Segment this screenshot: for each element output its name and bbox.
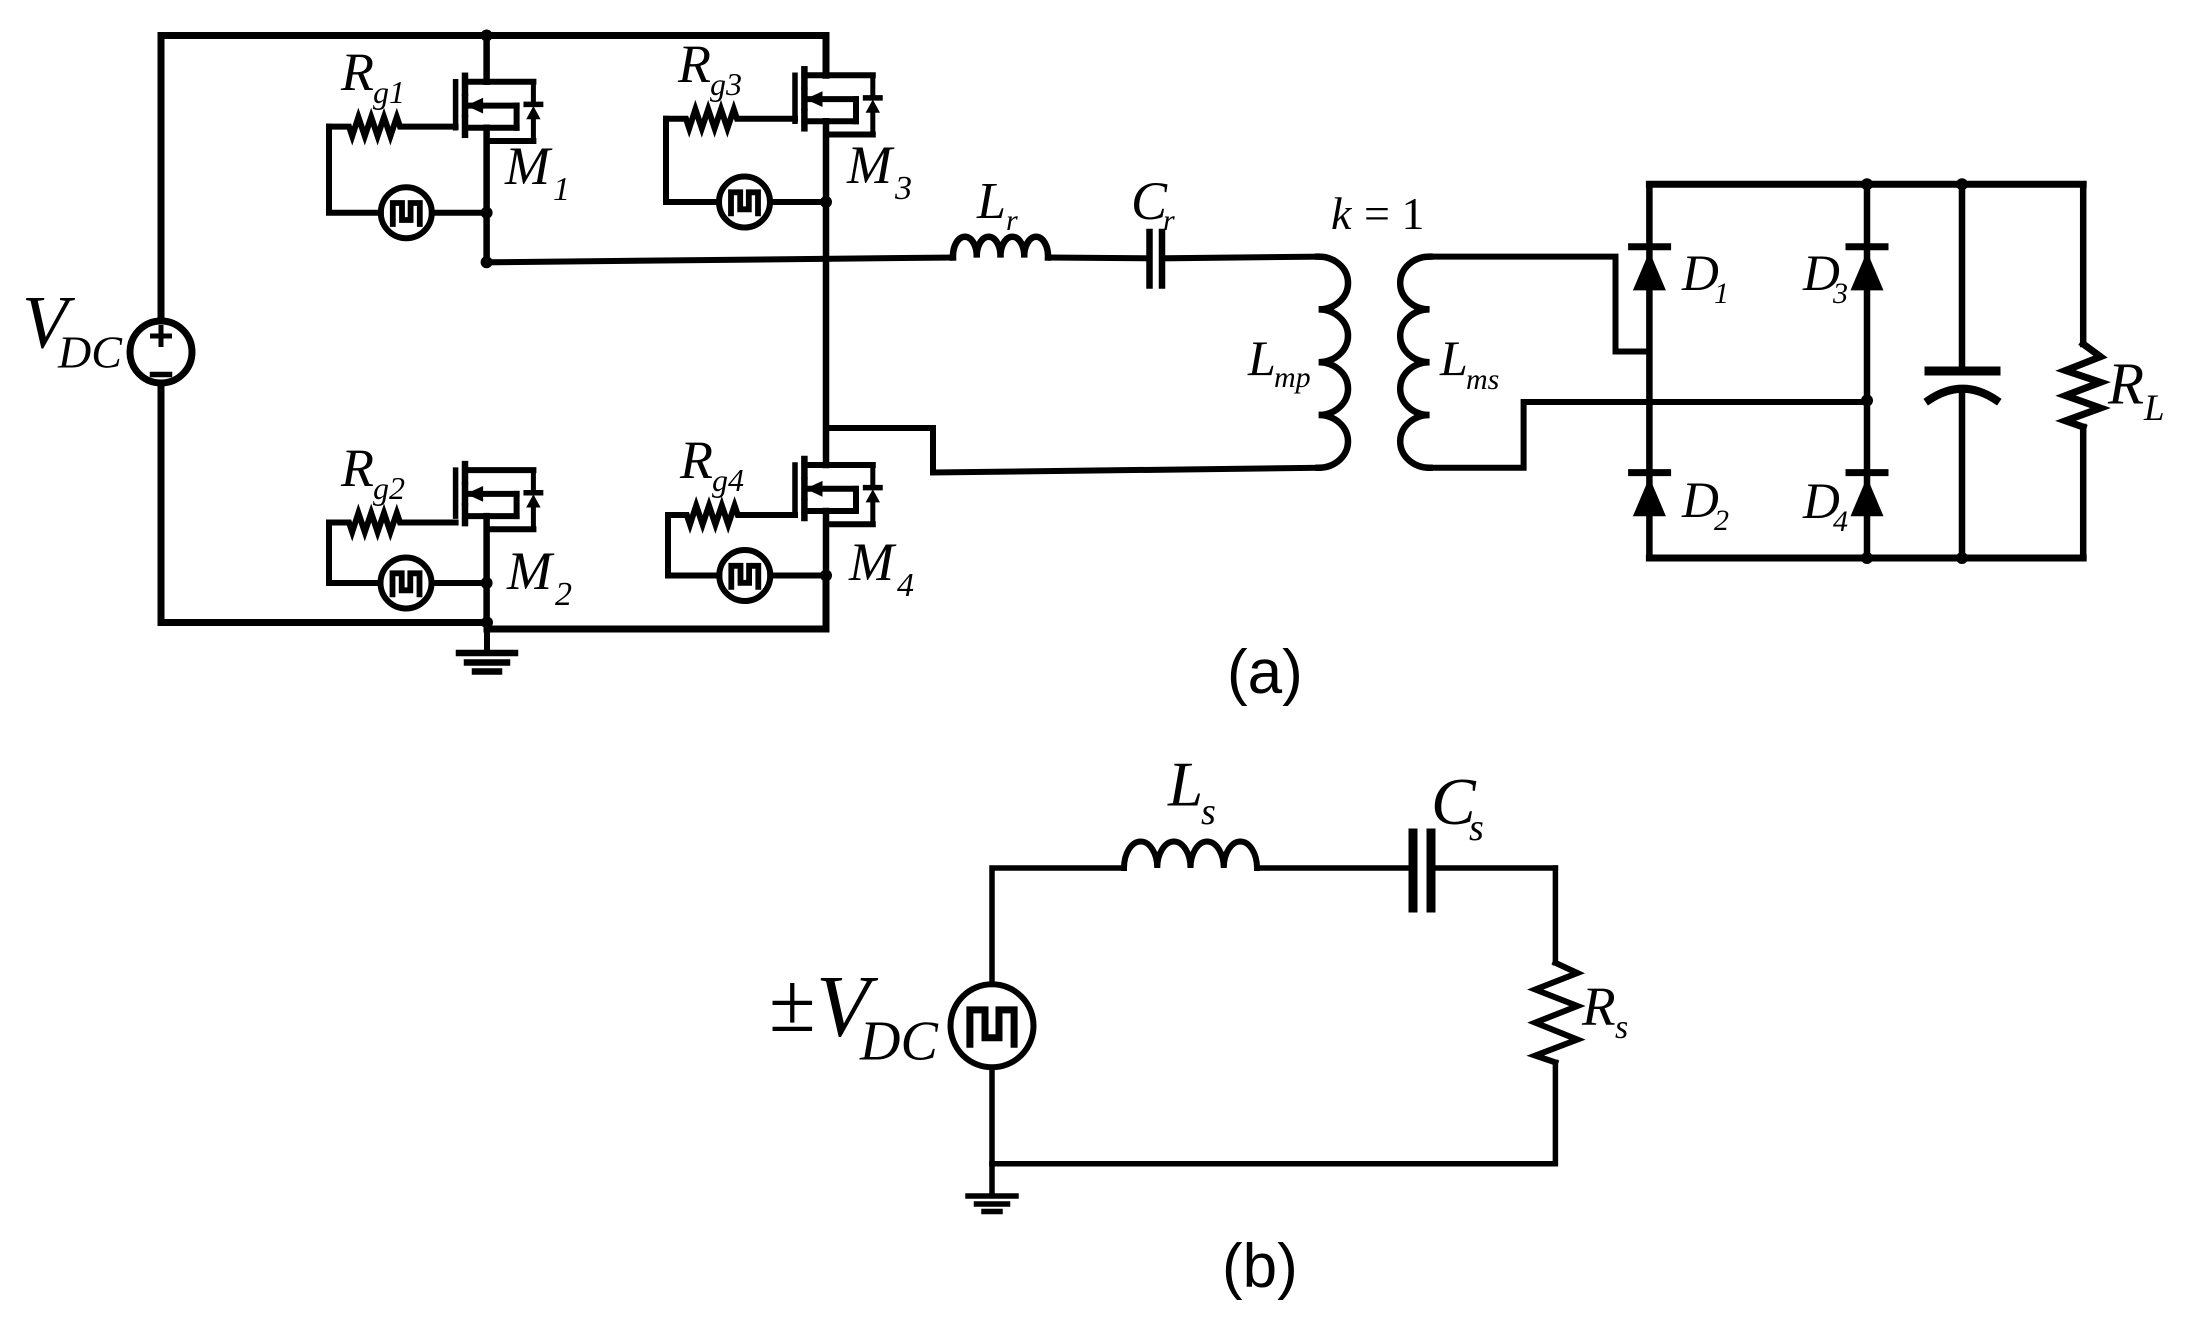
wire: bridge bottom rail	[1649, 555, 2083, 562]
wire: pulse to M2 source node	[432, 580, 487, 586]
wire: bridge top rail	[1649, 181, 2083, 188]
wire: Cr to Lmp	[1165, 257, 1319, 259]
inductor Ls	[1124, 841, 1257, 868]
svg-text:s: s	[1615, 1009, 1628, 1046]
svg-text:2: 2	[1714, 504, 1729, 537]
node bridge mid right leg	[1861, 395, 1873, 407]
transistor M2	[456, 464, 541, 529]
wire: Cs to right rail	[1434, 865, 1555, 871]
node bridge bottom rail cap	[1956, 552, 1968, 564]
wire: Rg2 loop left leg	[329, 523, 381, 584]
wire: bridge left leg	[1646, 184, 1653, 558]
svg-text:R: R	[1581, 976, 1616, 1037]
svg-text:R: R	[677, 34, 711, 94]
wire: Lmp bottom back to right-leg mid node	[826, 428, 1319, 473]
wire: bottom rail	[161, 576, 826, 630]
resistor Rs	[1535, 963, 1577, 1063]
wire: Lr to Cr	[1048, 255, 1146, 262]
svg-text:L: L	[1439, 330, 1468, 386]
svg-text:3: 3	[1832, 277, 1848, 310]
wire: pulse to M1 source node	[432, 210, 487, 216]
ground (b)	[968, 1164, 1016, 1212]
diode D3	[1849, 247, 1885, 291]
diode D2	[1632, 473, 1668, 517]
wire: left rail below VDC down to bottom rail	[158, 383, 165, 623]
wire: pulse to M3 source node	[770, 199, 826, 205]
wire: M1 drain from top rail	[483, 36, 490, 82]
svg-text:R: R	[340, 438, 374, 498]
capacitor Cr	[1150, 232, 1163, 286]
node top rail / M1 drain	[481, 30, 493, 42]
wire: Rg4 loop left leg	[668, 515, 719, 576]
wire: mid node to Lr	[487, 258, 953, 263]
svg-text:L: L	[1247, 330, 1276, 386]
svg-text:s: s	[1201, 791, 1216, 833]
wire: (b) top left rail	[992, 868, 1124, 984]
node bridge mid left leg	[481, 256, 493, 268]
svg-text:3: 3	[894, 170, 912, 207]
svg-text:= 1: = 1	[1364, 188, 1424, 239]
svg-text:DC: DC	[859, 1011, 938, 1073]
svg-text:M: M	[506, 541, 555, 601]
wire: Rg3 loop left leg	[666, 119, 719, 202]
wire: (b) below source to bottom rail	[989, 1067, 995, 1163]
svg-text:R: R	[679, 430, 713, 490]
resistor RL	[2066, 184, 2101, 558]
pulse source VG3	[719, 177, 770, 228]
Vdc source VDC	[130, 321, 192, 383]
wire: (b) right rail top	[1553, 868, 1559, 963]
node bridge bottom rail D4	[1861, 552, 1873, 564]
svg-text:R: R	[340, 42, 374, 102]
inductor Lmp primary winding	[1319, 257, 1348, 468]
ground	[459, 623, 515, 672]
inductor Lms secondary winding	[1400, 257, 1429, 468]
pulse source VG4	[719, 550, 770, 601]
node M3 source	[820, 196, 832, 208]
svg-text:ms: ms	[1466, 363, 1499, 396]
svg-text:M: M	[504, 136, 553, 196]
svg-text:1: 1	[1714, 277, 1729, 310]
node bridge top rail D3	[1861, 178, 1873, 190]
svg-text:±: ±	[769, 956, 816, 1050]
diode D4	[1849, 473, 1885, 517]
resistor Rg4	[668, 506, 795, 525]
pulse source Vb	[951, 984, 1034, 1067]
svg-text:k: k	[1331, 188, 1353, 239]
capacitor Cf filter	[1929, 184, 1996, 558]
svg-text:g4: g4	[712, 462, 744, 498]
wire: M2 source down to ground rail	[483, 516, 490, 622]
inductor Lr	[953, 237, 1048, 258]
pulse source VG1	[381, 187, 432, 238]
svg-text:s: s	[1469, 807, 1484, 849]
svg-text:g1: g1	[373, 74, 405, 110]
resistor Rg2	[329, 513, 456, 532]
svg-text:1: 1	[553, 171, 570, 208]
wire: M3 source down through pulse node, mid node, to M4 drain	[823, 121, 830, 465]
wire: Lms top to bridge left leg	[1430, 257, 1650, 352]
svg-text:2: 2	[555, 576, 572, 613]
resistor Rg3	[666, 109, 795, 128]
wire: Rg1 loop left leg	[329, 127, 381, 213]
wire: M4 source down to bottom rail	[823, 511, 830, 629]
svg-text:(b): (b)	[1222, 1232, 1298, 1301]
transistor M1	[456, 76, 541, 141]
node ground / bottom rail	[481, 617, 493, 629]
svg-text:R: R	[2107, 351, 2144, 417]
svg-text:r: r	[1006, 204, 1018, 237]
node M4 source	[820, 570, 832, 582]
svg-text:g3: g3	[710, 66, 742, 102]
node bridge top rail cap	[1956, 178, 1968, 190]
svg-text:r: r	[1163, 204, 1175, 237]
wire: (b) right rail bottom and bottom rail	[992, 1062, 1555, 1163]
capacitor Cs	[1413, 833, 1431, 908]
svg-text:(a): (a)	[1227, 638, 1303, 707]
wire: Lms bottom to bridge right leg	[1430, 402, 1867, 468]
wire: bridge right leg	[1864, 184, 1871, 558]
pulse source VG2	[381, 558, 432, 609]
resistor Rg1	[329, 117, 456, 136]
node M2 source	[481, 577, 493, 589]
transistor M3	[795, 69, 880, 134]
wire: pulse to M4 source node	[770, 573, 826, 579]
svg-text:mp: mp	[1274, 361, 1311, 394]
diode D1	[1632, 247, 1668, 291]
wire: Ls to Cs	[1257, 865, 1409, 871]
svg-text:4: 4	[897, 567, 914, 604]
svg-text:L: L	[2143, 388, 2165, 429]
wire: M1 source down to pulse node and mid node	[483, 128, 490, 262]
svg-text:L: L	[976, 173, 1006, 230]
wire: top rail with left rail drop and right corner down to M3 drain	[161, 36, 826, 322]
svg-text:L: L	[1167, 750, 1203, 820]
svg-text:DC: DC	[57, 327, 123, 378]
svg-text:g2: g2	[373, 470, 405, 506]
svg-text:M: M	[848, 532, 897, 592]
transistor M4	[795, 459, 880, 524]
svg-text:4: 4	[1833, 505, 1848, 538]
svg-text:M: M	[846, 135, 895, 195]
node M1 source	[481, 207, 493, 219]
